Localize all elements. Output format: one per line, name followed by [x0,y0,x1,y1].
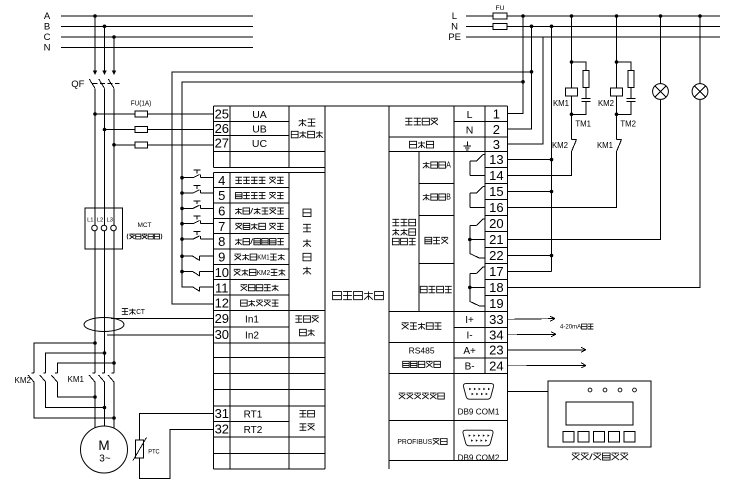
node A [44,11,253,22]
junction tap 2 [103,351,107,355]
svg-text:11: 11 [215,280,229,295]
svg-text:N: N [466,124,474,136]
svg-text:32: 32 [215,421,229,436]
svg-text:4: 4 [218,173,225,188]
auxiliary contact KM2 [552,140,577,152]
svg-text:FU(1A): FU(1A) [131,101,152,108]
contactor KM1 (3-pole) [68,373,115,384]
wire phase L3 vertical [113,95,115,428]
current transformer MCT box [85,208,123,249]
svg-text:33: 33 [489,312,503,327]
svg-text:KM1: KM1 [68,375,85,384]
module LED 2 [603,388,607,392]
svg-text:UC: UC [252,138,268,150]
junction bus row 8 [180,237,184,241]
wire PE drop to terminal 3 [508,37,543,144]
svg-text:19: 19 [489,296,503,311]
svg-text:18: 18 [489,280,503,295]
svg-text:RT2: RT2 [244,425,263,436]
wire N drop to terminal 2 [508,26,532,129]
display/programming module [548,381,651,447]
node N [44,43,253,54]
svg-text:CT: CT [136,307,145,316]
svg-text:/: / [250,207,253,216]
svg-text:KM2: KM2 [15,376,32,385]
junction TM2 [615,113,619,117]
wire L drop to terminal 1 [508,16,523,114]
svg-text:B: B [44,22,50,33]
junction L drop [521,14,525,18]
module button 2 [578,432,589,443]
wire KM2 branch return 3 [57,382,95,397]
wire CT lead to terminal 30 [107,334,214,336]
node C [44,32,253,43]
module LED 1 [588,388,592,392]
svg-text:/: / [250,237,253,246]
svg-text:I+: I+ [465,315,474,326]
svg-text:25: 25 [215,106,229,121]
svg-text:10: 10 [215,265,229,280]
contactor coil KM1 [566,88,578,96]
svg-text:2: 2 [493,122,500,137]
wire lamp to terminal 21 [508,99,661,239]
svg-text:13: 13 [489,152,503,167]
svg-text:TM2: TM2 [620,120,636,129]
junction merge 3 [93,395,97,399]
junction phase 2 / fuse wire [103,128,107,132]
relay A contact (13-14) [470,155,485,176]
label three-phase voltage input [299,119,307,126]
pushbutton input terminal 5 [182,186,214,194]
wire display interface to module [508,390,548,392]
svg-text:20: 20 [489,216,503,231]
label leakage current input [295,316,302,323]
label self-diagnosis [425,237,432,244]
svg-text:3: 3 [493,137,500,152]
thermistor PTC [136,440,144,458]
svg-text:QF: QF [71,79,84,90]
junction bus row 4 [180,176,184,180]
svg-text:34: 34 [489,327,503,342]
wire common link (N side) : from N drop to input common 12 [172,72,532,304]
self-diagnosis changeover contact (20-21-22) [468,219,485,258]
pushbutton input terminal 8 [182,232,214,240]
svg-text:L: L [467,109,473,121]
pushbutton input terminal 4 [182,170,214,178]
module LCD [566,402,633,425]
junction KM2 branch top [615,14,619,18]
label motor protector [333,291,342,299]
svg-text:24: 24 [489,358,503,373]
fuse FU1 [135,111,148,117]
pushbutton input terminal 6 [182,201,214,209]
label display module interface [399,393,406,399]
wire terminal 17 [508,270,552,272]
svg-text:27: 27 [215,136,229,151]
junction 15 [550,190,554,194]
svg-text:I-: I- [467,331,473,342]
svg-text:FU: FU [495,5,504,12]
wire CT lead to terminal 29 [111,318,214,320]
junction phase 3 / fuse wire [112,143,116,147]
svg-text:31: 31 [215,406,229,421]
wire fuse row 1 [95,113,214,115]
svg-text:MCT: MCT [137,222,151,229]
circuit breaker QF [71,16,119,95]
label protective earth [410,141,417,148]
svg-text:6: 6 [218,204,225,219]
wire L to lamp (21 branch) [660,16,662,84]
label display/programming module [572,453,580,460]
svg-text:KM1: KM1 [553,99,569,108]
wire RS485 A+ 23 arrow [508,349,586,351]
snubber TM1 (R+C) [572,62,592,129]
wire analog I+ 33 output arrow [508,318,555,321]
wire KM2 branch tap 1 [34,343,95,373]
svg-text:KM1: KM1 [257,253,269,262]
junction KM1 branch top [570,14,574,18]
svg-text:29: 29 [215,311,229,326]
junction merge 2 [103,406,107,410]
svg-text:TM1: TM1 [575,120,591,129]
svg-text:A+: A+ [463,346,476,357]
module button 1 [563,432,574,443]
junction TM1 [570,113,574,117]
svg-text:1: 1 [493,106,500,121]
wire KM2 branch return 1 [34,382,114,418]
wire lamp to terminal 18 [508,99,700,287]
wire terminal 22 [508,255,552,257]
junction bus row 5 [180,191,184,195]
zero-sequence CT toroid [84,318,124,332]
svg-text:In1: In1 [245,315,259,326]
junction N drop [530,25,534,29]
svg-text:UA: UA [252,109,267,121]
wire common bus (L side) [182,82,523,287]
svg-text:B: B [446,193,451,202]
junction tap 3 [112,361,116,365]
junction tap 1 [93,341,97,345]
wire PTC to terminal 32 [140,429,214,478]
junction on L drop [521,80,525,84]
label analog output [402,323,409,330]
wire terminal 31 to PTC [140,414,214,440]
indicator lamp (terminal 18) [692,84,708,100]
label temperature detection [300,411,307,418]
wire RS485 B- 24 arrow [508,364,586,366]
wire analog I- 34 output arrow [508,333,556,336]
svg-text:22: 22 [489,248,503,263]
label zero-sequence CT [122,309,128,315]
svg-text:UB: UB [252,123,267,135]
contact input terminal 11 [182,287,214,291]
svg-text:3~: 3~ [99,454,111,465]
label auxiliary power [405,118,412,125]
wire phase L1 vertical [94,95,96,428]
motor protector outer table [214,106,508,469]
junction 22 [550,254,554,258]
module button 4 [609,432,620,443]
contactor coil KM2 [611,88,623,96]
relay B contact (15-16) [470,187,485,208]
wire KM2 branch tap 3 [57,363,114,373]
svg-text:PROFIBUS: PROFIBUS [397,437,432,446]
svg-text:A: A [446,161,451,170]
wire phase L2 vertical [104,95,106,426]
svg-text:RT1: RT1 [244,409,263,420]
label switch-quantity input (vertical) [303,209,311,217]
junction 13 [550,158,554,162]
junction on C [112,35,116,39]
svg-text:PE: PE [448,32,461,43]
wire L to KM1 coil [571,16,573,88]
svg-text:KM2: KM2 [257,268,271,277]
label relay B [423,194,430,200]
motor M 3~ [81,426,128,473]
contact input terminal 10 [182,272,214,276]
fuse FU2 [135,127,148,133]
svg-text:N: N [451,22,458,33]
svg-text:16: 16 [489,200,503,215]
svg-text:21: 21 [489,232,503,247]
wire KM2 branch return 2 [46,382,105,408]
wire N drop 2 (relay common) [551,26,553,271]
wire L to lamp (18 branch) [699,16,701,84]
svg-text:M: M [98,438,109,453]
fuse FU3 [135,142,148,148]
label fault output [420,286,427,293]
svg-text:23: 23 [489,343,503,358]
svg-text:DB9 COM2: DB9 COM2 [458,453,500,462]
svg-text:L3: L3 [106,218,112,224]
svg-text:7: 7 [218,219,225,234]
svg-text:14: 14 [489,168,503,183]
junction bus row 7 [180,222,184,226]
svg-text:B-: B- [465,362,475,373]
junction bus row 9 [180,254,184,258]
junction phase 1 / fuse wire [93,112,97,116]
wire terminal 13 [508,159,552,161]
svg-text:4-20mA: 4-20mA [560,324,582,331]
svg-text:L2: L2 [97,218,103,224]
svg-text:KM2: KM2 [598,99,614,108]
svg-text:KM1: KM1 [597,141,613,150]
svg-text:17: 17 [489,264,503,279]
wire fuse row 2 [105,129,214,131]
fuse FU on N [493,23,507,29]
junction bus row 6 [180,207,184,211]
fault output changeover contact (17-18-19) [468,267,485,306]
wire terminal 15 [508,191,552,193]
svg-text:30: 30 [215,327,229,342]
svg-text:L1: L1 [87,218,93,224]
auxiliary contact KM1 [597,140,622,152]
svg-text:KM2: KM2 [552,141,568,150]
svg-text:DB9 COM1: DB9 COM1 [458,408,500,417]
svg-text:RS485: RS485 [409,346,435,356]
module button 3 [593,432,604,443]
wire fuse row 3 [114,144,214,146]
wire KM2 branch tap 2 [46,353,105,373]
svg-text:PTC: PTC [148,448,160,455]
svg-text:9: 9 [218,250,225,265]
wire contact to terminal 14 [508,152,572,176]
junction bus row 10 [180,270,184,274]
module button 5 [624,432,635,443]
label relay A [423,162,430,168]
connector DB9 COM2 [463,430,493,446]
junction on N drop [530,70,534,74]
label control protection relay output [392,219,399,226]
svg-text:In2: In2 [245,331,259,342]
node N (aux) [451,22,720,33]
module LED 4 [633,388,637,392]
svg-text:5: 5 [218,188,225,203]
wire contact to terminal 16 [508,152,617,208]
label (signal transmitter) [126,234,129,240]
pushbutton input terminal 7 [182,216,214,224]
contactor KM2 (3-pole) [15,373,58,385]
snubber TM2 (R+C) [617,62,637,129]
wire coil KM1 bottom [571,96,573,140]
junction on A [93,14,97,18]
node B [44,22,253,33]
junction on B [103,25,107,29]
svg-text:15: 15 [489,184,503,199]
svg-text:26: 26 [215,121,229,136]
svg-text:12: 12 [215,296,229,311]
connector DB9 COM1 [463,384,493,400]
indicator lamp (terminal 21) [653,84,669,100]
node PE [448,32,720,43]
wire coil KM2 bottom [616,96,618,140]
junction N drop2 [550,25,554,29]
node L [452,11,720,22]
svg-text:N: N [44,43,51,54]
svg-text:8: 8 [218,234,225,249]
wire L to KM2 coil [616,16,618,88]
module LED 3 [618,388,622,392]
contact input terminal 9 [182,256,214,260]
junction merge 1 [112,416,116,420]
